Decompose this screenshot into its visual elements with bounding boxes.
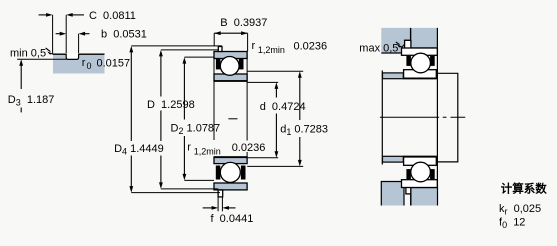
- svg-text:B 0.3937: B 0.3937: [220, 17, 267, 29]
- main bearing: right face extension line: [246, 54, 248, 157]
- svg-text:d 0.4724: d 0.4724: [260, 101, 306, 113]
- d1 dimension (inner ring shoulder): [247, 71, 328, 166]
- main bearing: top inner ring: [214, 74, 247, 81]
- svg-text:1,2min: 1,2min: [258, 45, 285, 55]
- svg-text:1,2min: 1,2min: [194, 147, 221, 157]
- main bearing: snap ring groove (bottom): [218, 190, 223, 197]
- r 1,2min chamfer label (top): [252, 40, 328, 55]
- svg-text:max 0,5: max 0,5: [359, 43, 398, 55]
- max 0,5 label with leader: [359, 42, 403, 55]
- mounted bearing: bottom cage bars: [406, 169, 434, 179]
- kr factor: [499, 203, 541, 217]
- mounted bearing right face line: [436, 28, 438, 188]
- main bearing: bottom inner ring: [214, 157, 247, 164]
- r0 groove fillet label: [82, 57, 130, 71]
- svg-text:r: r: [252, 40, 256, 52]
- svg-text:C 0.0811: C 0.0811: [89, 10, 136, 22]
- D dimension (outer diameter): [147, 50, 218, 189]
- D4 dimension (snap ring OD): [114, 46, 222, 193]
- svg-text:D 1.2598: D 1.2598: [147, 99, 195, 111]
- svg-text:D2 1.0787: D2 1.0787: [171, 123, 221, 137]
- shaft abutment shoulder (top, blue): [383, 73, 404, 79]
- main bearing: bottom outer ring: [214, 183, 247, 190]
- main bearing: top outer ring: [214, 52, 247, 59]
- main bearing: bottom ball: [220, 162, 240, 182]
- f0 factor: [499, 217, 525, 231]
- svg-text:0.0236: 0.0236: [294, 41, 328, 53]
- mounted bearing: top cage bars: [406, 56, 434, 66]
- mounted bearing: bottom ball: [411, 162, 431, 182]
- mounted view: housing top block: [381, 28, 437, 53]
- svg-text:0.0157: 0.0157: [97, 58, 131, 70]
- mounted bearing: bottom inner ring: [404, 156, 437, 165]
- main bearing: snap ring groove (top): [218, 47, 222, 52]
- detail view ring cross-section (snap ring groove detail): [53, 54, 105, 73]
- mounted view: housing bottom block: [381, 182, 437, 206]
- groove slot in detail view: [66, 53, 78, 59]
- svg-text:0.0236: 0.0236: [232, 142, 266, 154]
- main view: B dimension: [214, 17, 267, 52]
- svg-text:min 0,5: min 0,5: [10, 48, 46, 60]
- svg-text:D3 1.187: D3 1.187: [8, 94, 55, 108]
- C dimension: [39, 10, 136, 55]
- b dimension: [56, 29, 147, 54]
- D3 dimension (groove diameter): [8, 59, 67, 112]
- mounted bearing: top ball: [411, 53, 431, 73]
- f dimension (groove position): [203, 197, 254, 225]
- svg-text:b 0.0531: b 0.0531: [101, 29, 147, 41]
- main view centerline tick: [228, 118, 237, 120]
- calculation factors title: [501, 182, 547, 196]
- mounted bearing: bottom outer ring: [402, 180, 438, 188]
- right abutment sleeve outline: [437, 73, 457, 162]
- r 1,2min chamfer label (bottom): [187, 142, 265, 157]
- mounted view centerline (dash-dot): [380, 116, 465, 118]
- svg-text:计算系数: 计算系数: [501, 182, 547, 196]
- mounted bearing: top outer ring: [402, 48, 438, 55]
- svg-text:r: r: [82, 57, 86, 69]
- shaft shoulder face line: [381, 71, 383, 165]
- main bearing: bottom cage bars: [216, 166, 246, 180]
- D2 dimension (outer ring shoulder): [171, 57, 221, 180]
- min 0,5 label with leader to groove corner: [10, 48, 53, 60]
- mounted bearing: top inner ring: [404, 70, 437, 79]
- mounted view: snap ring (top): [405, 40, 411, 48]
- main bearing: top ball: [220, 57, 239, 76]
- shaft abutment shoulder (bottom, blue): [383, 156, 404, 162]
- svg-text:r: r: [187, 142, 191, 154]
- main bearing: left face extension line: [213, 59, 215, 141]
- svg-text:0: 0: [87, 61, 92, 71]
- svg-text:D4 1.4449: D4 1.4449: [114, 143, 164, 157]
- d dimension (bore): [247, 82, 305, 157]
- svg-text:f 0.0441: f 0.0441: [211, 213, 254, 225]
- mounted view: snap ring (bottom): [406, 186, 411, 206]
- main bearing: top cage bars: [216, 59, 244, 69]
